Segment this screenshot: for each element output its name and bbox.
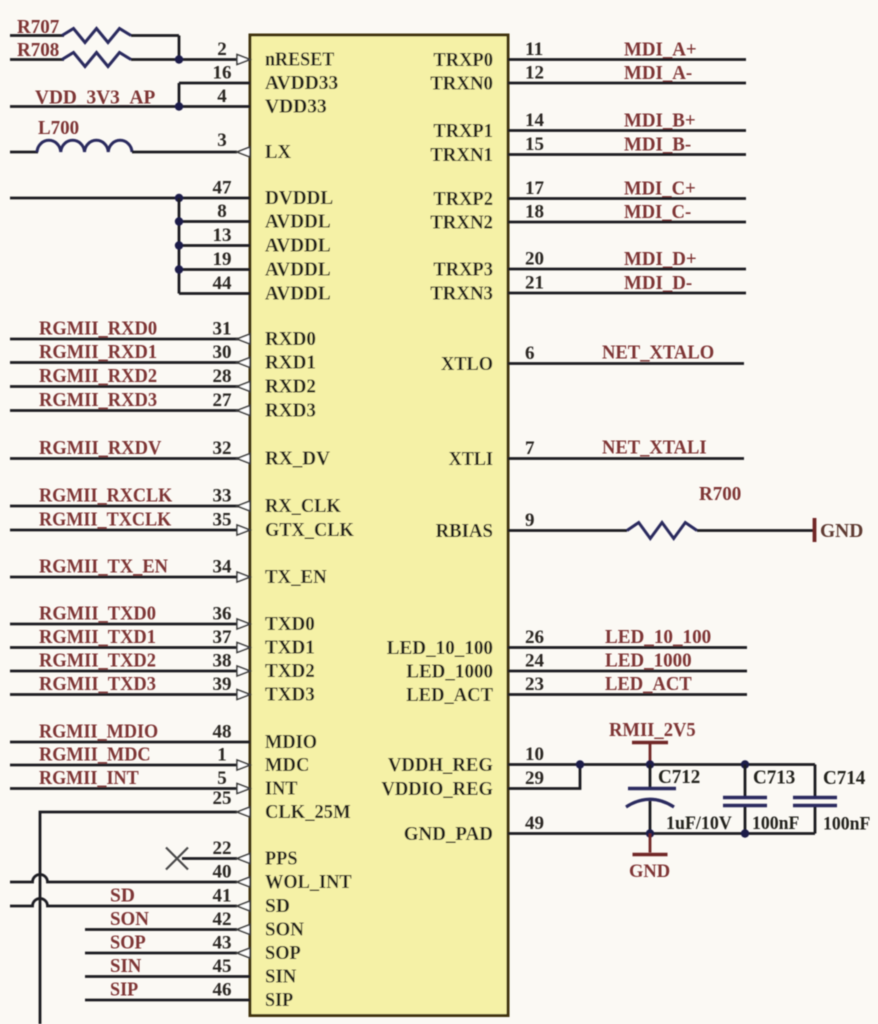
svg-text:AVDDL: AVDDL bbox=[265, 284, 331, 305]
junction VDDIO_REG join bbox=[576, 760, 584, 768]
svg-text:RXD0: RXD0 bbox=[265, 329, 316, 350]
svg-text:12: 12 bbox=[525, 63, 544, 84]
svg-text:WOL_INT: WOL_INT bbox=[265, 872, 352, 893]
svg-text:MDI_D+: MDI_D+ bbox=[624, 249, 697, 270]
svg-text:24: 24 bbox=[525, 651, 545, 672]
junction AVDDL pin 19 bbox=[175, 265, 183, 273]
pin 1 input arrow bbox=[237, 760, 250, 770]
svg-text:RGMII_RXD2: RGMII_RXD2 bbox=[39, 366, 157, 387]
svg-text:MDI_D-: MDI_D- bbox=[624, 273, 692, 294]
svg-text:RGMII_TXD0: RGMII_TXD0 bbox=[39, 604, 156, 625]
resistor R700 bbox=[627, 523, 697, 539]
pin 43 output arrow bbox=[237, 948, 250, 958]
wire C712 bottom lead bbox=[649, 801, 652, 834]
wire MDI_B- bbox=[508, 153, 746, 156]
wire GND_PAD rail bbox=[508, 832, 815, 835]
pin 36 input arrow bbox=[237, 619, 250, 629]
svg-text:XTLO: XTLO bbox=[441, 354, 493, 375]
svg-text:TRXP1: TRXP1 bbox=[433, 121, 493, 142]
svg-text:SIN: SIN bbox=[110, 956, 141, 977]
svg-text:RGMII_MDIO: RGMII_MDIO bbox=[39, 722, 158, 743]
svg-text:VDDIO_REG: VDDIO_REG bbox=[381, 779, 493, 800]
wire SIN bbox=[85, 975, 250, 978]
wire LED_ACT bbox=[508, 693, 747, 696]
svg-text:6: 6 bbox=[525, 343, 535, 364]
wire RGMII_TX_EN bbox=[10, 576, 237, 579]
pin 31 output arrow bbox=[237, 334, 250, 344]
pin 33 output arrow bbox=[237, 501, 250, 511]
svg-text:9: 9 bbox=[525, 510, 535, 531]
svg-text:32: 32 bbox=[213, 438, 232, 459]
wire MDI_D- bbox=[508, 292, 746, 295]
wire C713 top lead bbox=[744, 765, 747, 797]
junction C713 bottom bbox=[741, 829, 749, 837]
pin 30 output arrow bbox=[237, 358, 250, 368]
junction DVDDL bus top bbox=[175, 194, 183, 202]
svg-text:R708: R708 bbox=[17, 40, 60, 61]
svg-text:LED_10_100: LED_10_100 bbox=[387, 638, 493, 659]
svg-text:RGMII_INT: RGMII_INT bbox=[39, 768, 139, 789]
wire VDD_3V3_AP to pin 4 bbox=[10, 105, 250, 108]
wire LED_1000 bbox=[508, 670, 747, 673]
svg-text:1uF/10V: 1uF/10V bbox=[666, 814, 732, 834]
svg-text:10: 10 bbox=[525, 744, 544, 765]
wire LX left lead bbox=[10, 151, 38, 154]
wire C712 ground stub bbox=[649, 834, 652, 853]
capacitor C714 top plate bbox=[793, 796, 837, 799]
wire pin 16 AVDD33 bbox=[179, 82, 250, 85]
svg-text:LX: LX bbox=[265, 142, 291, 163]
wire RGMII_RXD3 bbox=[10, 409, 250, 412]
svg-text:RGMII_MDC: RGMII_MDC bbox=[39, 745, 151, 766]
wire LED_10_100 bbox=[508, 646, 747, 649]
svg-text:SIP: SIP bbox=[265, 990, 293, 1011]
svg-text:LED_ACT: LED_ACT bbox=[406, 685, 493, 706]
svg-text:C713: C713 bbox=[753, 768, 796, 789]
wire R708 left lead bbox=[10, 58, 64, 61]
svg-text:TRXP3: TRXP3 bbox=[433, 260, 493, 281]
junction C712 bottom bbox=[646, 829, 654, 837]
svg-text:21: 21 bbox=[525, 273, 544, 294]
svg-text:RX_CLK: RX_CLK bbox=[265, 496, 342, 517]
PHY chip U700 body bbox=[250, 35, 508, 1016]
wire SIP bbox=[85, 999, 250, 1002]
wire RGMII_TXD0 bbox=[10, 623, 237, 626]
svg-text:RGMII_RXD0: RGMII_RXD0 bbox=[39, 319, 157, 340]
svg-text:LED_1000: LED_1000 bbox=[605, 651, 692, 672]
svg-text:RGMII_TX_EN: RGMII_TX_EN bbox=[39, 557, 168, 578]
svg-text:18: 18 bbox=[525, 202, 544, 223]
svg-text:RMII_2V5: RMII_2V5 bbox=[609, 720, 696, 741]
svg-text:5: 5 bbox=[217, 768, 227, 789]
svg-text:TXD3: TXD3 bbox=[265, 685, 315, 706]
svg-text:TRXN3: TRXN3 bbox=[430, 284, 493, 305]
svg-text:16: 16 bbox=[213, 63, 232, 84]
pin 25 output arrow bbox=[237, 807, 250, 817]
wire RGMII_RXDV bbox=[10, 457, 250, 460]
svg-text:3: 3 bbox=[217, 130, 227, 151]
wire SOP bbox=[85, 952, 237, 955]
svg-text:RGMII_TXD2: RGMII_TXD2 bbox=[39, 651, 156, 672]
wire C712 top lead bbox=[649, 765, 652, 789]
svg-text:MDI_A-: MDI_A- bbox=[624, 63, 692, 84]
svg-text:TX_EN: TX_EN bbox=[265, 567, 327, 588]
capacitor C713 top plate bbox=[723, 796, 767, 799]
svg-text:29: 29 bbox=[525, 768, 544, 789]
svg-text:37: 37 bbox=[213, 627, 233, 648]
svg-text:23: 23 bbox=[525, 674, 544, 695]
wire R707 left lead bbox=[10, 34, 64, 37]
resistor R707 bbox=[62, 29, 131, 43]
inductor L700 bbox=[37, 140, 132, 152]
svg-text:DVDDL: DVDDL bbox=[265, 188, 333, 209]
svg-text:LED_ACT: LED_ACT bbox=[605, 674, 692, 695]
svg-text:39: 39 bbox=[213, 674, 232, 695]
pin 22 output arrow bbox=[237, 854, 250, 864]
svg-text:RGMII_RXCLK: RGMII_RXCLK bbox=[39, 486, 173, 507]
pin 40 output arrow bbox=[237, 877, 250, 887]
svg-text:34: 34 bbox=[213, 557, 233, 578]
svg-text:2: 2 bbox=[217, 39, 227, 60]
svg-text:RGMII_TXD1: RGMII_TXD1 bbox=[39, 627, 156, 648]
wire SON bbox=[85, 928, 237, 931]
wire NET_XTALO bbox=[508, 362, 744, 365]
wire RGMII_TXD1 bbox=[10, 646, 237, 649]
pin 2 input arrow bbox=[237, 55, 250, 65]
capacitor C712 curved plate bbox=[626, 799, 674, 807]
wire MDI_C- bbox=[508, 221, 746, 224]
wire DVDDL bbox=[10, 197, 250, 200]
wire CLK_25M bbox=[40, 812, 237, 1024]
svg-text:RGMII_RXD1: RGMII_RXD1 bbox=[39, 342, 157, 363]
svg-text:SOP: SOP bbox=[265, 943, 301, 964]
wire PPS stub bbox=[182, 857, 237, 860]
resistor R708 bbox=[62, 53, 131, 67]
pin 32 output arrow bbox=[237, 454, 250, 464]
svg-text:TRXN1: TRXN1 bbox=[430, 145, 493, 166]
svg-text:AVDDL: AVDDL bbox=[265, 236, 331, 257]
svg-text:GND: GND bbox=[820, 520, 863, 542]
wire AVDDL bus vertical bbox=[178, 198, 181, 294]
svg-text:38: 38 bbox=[213, 651, 232, 672]
svg-text:R700: R700 bbox=[699, 484, 741, 505]
svg-text:LED_1000: LED_1000 bbox=[406, 662, 493, 683]
wire MDI_D+ bbox=[508, 268, 746, 271]
wire MDI_C+ bbox=[508, 197, 746, 200]
svg-text:MDIO: MDIO bbox=[265, 732, 317, 753]
svg-text:27: 27 bbox=[213, 390, 233, 411]
svg-text:31: 31 bbox=[213, 319, 232, 340]
svg-text:L700: L700 bbox=[38, 118, 79, 139]
wire RGMII_RXD1 bbox=[10, 361, 250, 364]
svg-text:NET_XTALO: NET_XTALO bbox=[602, 343, 714, 364]
svg-text:25: 25 bbox=[213, 788, 232, 809]
wire RGMII_RXD2 bbox=[10, 385, 250, 388]
svg-text:36: 36 bbox=[213, 604, 232, 625]
wire RGMII_RXCLK bbox=[10, 505, 250, 508]
svg-text:40: 40 bbox=[213, 862, 232, 883]
wire RGMII_TXCLK bbox=[10, 529, 237, 532]
svg-text:PPS: PPS bbox=[265, 849, 298, 870]
svg-text:SIN: SIN bbox=[265, 967, 296, 988]
svg-text:INT: INT bbox=[265, 779, 298, 800]
junction VDD_3V3_AP bbox=[175, 102, 183, 110]
wire RGMII_MDIO bbox=[10, 741, 250, 744]
svg-text:AVDD33: AVDD33 bbox=[265, 73, 339, 94]
wire AVDDL pin 44 bbox=[179, 292, 250, 295]
pin 39 input arrow bbox=[237, 690, 250, 700]
pin 35 input arrow bbox=[237, 525, 250, 535]
svg-text:19: 19 bbox=[213, 249, 232, 270]
svg-text:48: 48 bbox=[213, 722, 232, 743]
svg-text:17: 17 bbox=[525, 178, 545, 199]
svg-text:SD: SD bbox=[265, 896, 290, 917]
svg-text:C714: C714 bbox=[823, 768, 866, 789]
svg-text:SON: SON bbox=[110, 909, 149, 930]
wire R700 to GND bbox=[697, 529, 813, 532]
svg-text:RXD1: RXD1 bbox=[265, 353, 316, 374]
svg-text:GND: GND bbox=[629, 861, 670, 882]
junction AVDDL pin 8 bbox=[175, 217, 183, 225]
pin 28 output arrow bbox=[237, 382, 250, 392]
svg-text:41: 41 bbox=[213, 886, 232, 907]
svg-text:LED_10_100: LED_10_100 bbox=[605, 627, 711, 648]
junction C712 top bbox=[646, 760, 654, 768]
wire WOL_INT with hop bbox=[10, 875, 237, 882]
svg-text:TRXN0: TRXN0 bbox=[430, 74, 493, 95]
svg-text:RGMII_RXD3: RGMII_RXD3 bbox=[39, 390, 157, 411]
svg-text:15: 15 bbox=[525, 134, 544, 155]
pin 41 output arrow bbox=[237, 901, 250, 911]
svg-text:MDI_A+: MDI_A+ bbox=[624, 40, 697, 61]
svg-text:33: 33 bbox=[213, 486, 232, 507]
capacitor C713 bottom plate bbox=[723, 804, 767, 807]
svg-text:TXD0: TXD0 bbox=[265, 614, 315, 635]
svg-text:4: 4 bbox=[217, 86, 227, 107]
svg-text:20: 20 bbox=[525, 249, 544, 270]
wire R707 right lead to junction bbox=[131, 34, 179, 37]
svg-text:47: 47 bbox=[213, 178, 233, 199]
svg-text:35: 35 bbox=[213, 510, 232, 531]
svg-text:TRXP0: TRXP0 bbox=[433, 50, 493, 71]
svg-text:RGMII_TXCLK: RGMII_TXCLK bbox=[39, 510, 172, 531]
svg-text:MDI_C-: MDI_C- bbox=[624, 202, 691, 223]
capacitor C714 bottom plate bbox=[793, 804, 837, 807]
wire RGMII_RXD0 bbox=[10, 338, 250, 341]
svg-text:GTX_CLK: GTX_CLK bbox=[265, 520, 355, 541]
svg-text:CLK_25M: CLK_25M bbox=[265, 802, 351, 823]
junction R707/R708 bbox=[175, 55, 183, 63]
wire C714 bottom lead bbox=[814, 807, 817, 834]
svg-text:C712: C712 bbox=[658, 767, 700, 788]
svg-text:100nF: 100nF bbox=[823, 815, 870, 835]
svg-text:30: 30 bbox=[213, 342, 232, 363]
wire VDDH_REG rail bbox=[508, 763, 815, 766]
svg-text:MDI_C+: MDI_C+ bbox=[624, 179, 696, 200]
svg-text:SON: SON bbox=[265, 920, 304, 941]
pin 42 output arrow bbox=[237, 925, 250, 935]
power bar RMII_2V5 bbox=[632, 741, 668, 745]
svg-text:TXD1: TXD1 bbox=[265, 638, 315, 659]
svg-text:TRXN2: TRXN2 bbox=[430, 213, 493, 234]
junction AVDDL pin 13 bbox=[175, 241, 183, 249]
wire RGMII_TXD2 bbox=[10, 670, 237, 673]
wire LX to pin 3 bbox=[132, 151, 237, 154]
wire NET_XTALI bbox=[508, 457, 744, 460]
svg-text:RXD2: RXD2 bbox=[265, 377, 316, 398]
svg-text:13: 13 bbox=[213, 225, 232, 246]
svg-text:MDI_B+: MDI_B+ bbox=[624, 111, 696, 132]
wire RGMII_MDC bbox=[10, 764, 237, 767]
svg-text:45: 45 bbox=[213, 956, 232, 977]
svg-text:46: 46 bbox=[213, 980, 232, 1001]
wire C713 bottom lead bbox=[744, 807, 747, 834]
wire SD with hop bbox=[10, 899, 237, 907]
pin 38 input arrow bbox=[237, 666, 250, 676]
svg-text:RGMII_TXD3: RGMII_TXD3 bbox=[39, 674, 156, 695]
svg-text:TRXP2: TRXP2 bbox=[433, 189, 493, 210]
svg-text:44: 44 bbox=[213, 273, 233, 294]
svg-text:TXD2: TXD2 bbox=[265, 661, 315, 682]
wire C714 top lead bbox=[814, 765, 817, 797]
svg-text:AVDDL: AVDDL bbox=[265, 260, 331, 281]
pin 37 input arrow bbox=[237, 643, 250, 653]
wire RGMII_TXD3 bbox=[10, 693, 237, 696]
ground bar at R700 bbox=[813, 518, 817, 542]
svg-text:11: 11 bbox=[525, 39, 543, 60]
svg-text:RGMII_RXDV: RGMII_RXDV bbox=[39, 438, 161, 459]
svg-text:nRESET: nRESET bbox=[265, 50, 334, 71]
svg-text:49: 49 bbox=[525, 813, 544, 834]
svg-text:RX_DV: RX_DV bbox=[265, 449, 330, 470]
wire AVDDL pin 19 bbox=[179, 268, 250, 271]
junction C713 top bbox=[741, 760, 749, 768]
wire MDI_A+ bbox=[508, 58, 746, 61]
wire VDDIO_REG bbox=[508, 765, 580, 789]
svg-text:7: 7 bbox=[525, 438, 535, 459]
svg-text:SIP: SIP bbox=[110, 980, 138, 1001]
svg-text:RBIAS: RBIAS bbox=[436, 521, 494, 542]
svg-text:42: 42 bbox=[213, 909, 232, 930]
svg-text:22: 22 bbox=[213, 838, 232, 859]
wire AVDDL pin 13 bbox=[179, 244, 250, 247]
svg-text:1: 1 bbox=[217, 745, 227, 766]
svg-text:100nF: 100nF bbox=[752, 814, 799, 834]
wire RMII_2V5 stub bbox=[649, 743, 652, 765]
wire RBIAS to R700 bbox=[508, 529, 627, 532]
svg-text:GND_PAD: GND_PAD bbox=[404, 824, 493, 845]
svg-text:43: 43 bbox=[213, 933, 232, 954]
svg-text:8: 8 bbox=[217, 201, 227, 222]
svg-text:XTLI: XTLI bbox=[449, 449, 493, 470]
svg-text:RXD3: RXD3 bbox=[265, 401, 316, 422]
svg-text:14: 14 bbox=[525, 110, 545, 131]
wire node nRESET to pin 2 bbox=[131, 58, 237, 61]
svg-text:VDDH_REG: VDDH_REG bbox=[388, 755, 493, 776]
svg-text:28: 28 bbox=[213, 366, 232, 387]
svg-text:MDI_B-: MDI_B- bbox=[624, 135, 691, 156]
pin 27 output arrow bbox=[237, 406, 250, 416]
pin 3 output arrow bbox=[237, 147, 250, 157]
wire AVDDL pin 8 bbox=[179, 220, 250, 223]
svg-text:AVDDL: AVDDL bbox=[265, 212, 331, 233]
pin 34 input arrow bbox=[237, 572, 250, 582]
svg-text:SD: SD bbox=[110, 886, 135, 907]
no-connect X at pin 22 bbox=[166, 848, 188, 870]
pin 5 input arrow bbox=[237, 784, 250, 794]
svg-text:MDC: MDC bbox=[265, 755, 309, 776]
svg-text:26: 26 bbox=[525, 627, 544, 648]
wire MDI_A- bbox=[508, 82, 746, 85]
capacitor C712 top plate bbox=[628, 787, 676, 790]
wire MDI_B+ bbox=[508, 129, 746, 132]
ground bar below C712 bbox=[633, 853, 668, 857]
svg-text:SOP: SOP bbox=[110, 933, 146, 954]
wire RGMII_INT bbox=[10, 787, 237, 790]
svg-text:VDD33: VDD33 bbox=[265, 97, 327, 118]
svg-text:NET_XTALI: NET_XTALI bbox=[602, 438, 707, 459]
